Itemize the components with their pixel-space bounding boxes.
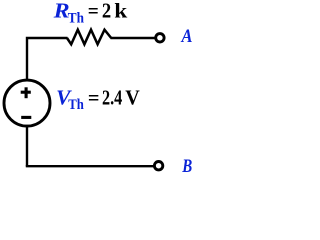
node A terminal circle (156, 34, 164, 42)
voltage source V_Th circle (4, 80, 50, 126)
wire source bottom vertical (26, 125, 28, 167)
voltage source plus sign (21, 91, 31, 94)
svg-text:B: B (181, 157, 192, 177)
node B terminal circle (154, 162, 162, 170)
voltage source minus sign (21, 116, 31, 119)
resistor R_Th zigzag (67, 30, 111, 45)
wire bottom horizontal (26, 165, 154, 167)
wire resistor to terminal A (111, 37, 156, 39)
wire top-left segment (27, 38, 68, 80)
svg-text:A: A (181, 27, 193, 47)
